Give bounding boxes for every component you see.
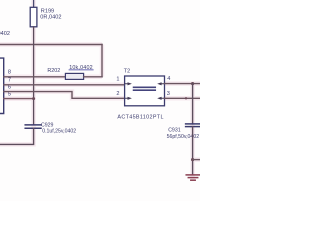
junction mark on pin3 wire xyxy=(185,97,187,99)
transformer T2 box xyxy=(125,76,165,106)
svg-text:0.1uf,25v,0402: 0.1uf,25v,0402 xyxy=(42,129,76,135)
wire C929 bottom rail xyxy=(0,128,34,144)
resistor R202 xyxy=(65,73,83,79)
T2 pin2 arrow xyxy=(125,97,132,100)
wire C931 bottom to ground xyxy=(192,127,194,175)
svg-text:56pf,50v,0402: 56pf,50v,0402 xyxy=(167,134,200,140)
T2 windings xyxy=(134,87,156,90)
svg-text:R202: R202 xyxy=(47,68,60,74)
svg-text:C931: C931 xyxy=(168,127,181,133)
capacitor C929 xyxy=(25,125,41,128)
svg-text:2: 2 xyxy=(116,91,119,97)
T2 pin3 arrow xyxy=(157,97,164,100)
junction ground branch xyxy=(191,158,194,161)
svg-text:3: 3 xyxy=(167,91,170,97)
wire bus vertical drop xyxy=(101,45,103,77)
svg-text:0R,0402: 0R,0402 xyxy=(40,14,61,20)
soft halo band along wires xyxy=(0,0,200,180)
wire bus horizontal net xyxy=(0,44,102,46)
resistor R199 xyxy=(30,0,37,27)
wire pin7 to T2 pin1 xyxy=(4,84,125,86)
junction pin4 / C931 xyxy=(191,82,194,85)
IC connector box left xyxy=(0,58,4,113)
wire T2 pin3 to right edge xyxy=(165,97,201,99)
T2 pin1 arrow xyxy=(125,82,165,100)
svg-text:1: 1 xyxy=(116,76,119,82)
wire pin8 left segment xyxy=(4,76,66,78)
junction pin5 / C929 xyxy=(32,97,35,100)
capacitor C931 xyxy=(186,124,200,127)
T2 pin4 arrow xyxy=(157,82,164,85)
svg-text:C929: C929 xyxy=(41,123,54,129)
wire pin5 to junction xyxy=(4,98,34,100)
svg-text:T2: T2 xyxy=(124,69,130,75)
wire R199 bottom to C929 vertical xyxy=(33,27,35,124)
svg-text:ACT45B1102PTL: ACT45B1102PTL xyxy=(117,114,163,120)
svg-text:5: 5 xyxy=(8,92,11,98)
wire T2 pin4 to right edge xyxy=(165,83,201,85)
svg-text:0402: 0402 xyxy=(0,31,10,37)
ground symbol xyxy=(186,175,200,180)
svg-text:4: 4 xyxy=(167,76,170,82)
svg-text:7: 7 xyxy=(8,78,11,84)
wire pin6 stepped to T2 pin2 xyxy=(4,92,125,99)
wire pin8 right segment xyxy=(84,76,102,78)
wire ground branch to right edge xyxy=(193,159,200,161)
svg-text:8: 8 xyxy=(8,70,11,76)
wire C931 top xyxy=(192,84,194,124)
